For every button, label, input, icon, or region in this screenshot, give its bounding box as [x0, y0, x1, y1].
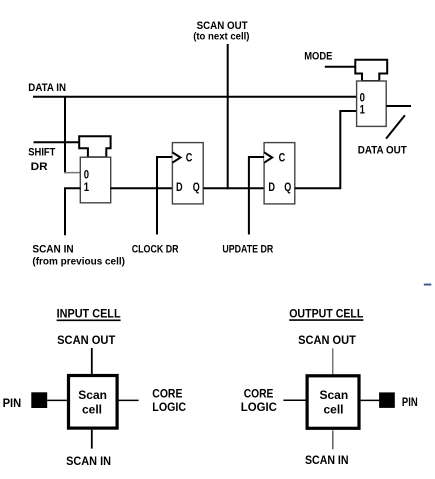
svg-text:SCAN OUT: SCAN OUT	[197, 20, 248, 32]
wire: mux U1 output to FF1 D	[110, 187, 172, 189]
wire: SCAN OUT vertical to Q1/D2 node	[227, 44, 229, 189]
wire: output cell scan out lead	[332, 348, 334, 374]
svg-text:PIN: PIN	[3, 396, 22, 410]
wire: scan cell to pin (output cell)	[361, 399, 380, 401]
label OUTPUT CELL (underlined)	[289, 306, 363, 320]
label CORE LOGIC (input cell)	[152, 387, 186, 415]
label Scan cell (input cell)	[78, 388, 107, 417]
svg-text:LOGIC: LOGIC	[152, 400, 186, 414]
label CORE LOGIC (output cell)	[241, 387, 277, 414]
svg-text:SCAN OUT: SCAN OUT	[298, 333, 356, 347]
svg-text:Q: Q	[193, 180, 200, 194]
wire: scan cell to core logic (input cell)	[118, 399, 138, 401]
label SCAN OUT (to next cell)	[193, 20, 249, 43]
hyperlink underscore artifact	[424, 284, 432, 286]
svg-text:D: D	[176, 180, 183, 194]
svg-text:PIN: PIN	[402, 395, 418, 409]
svg-text:CORE: CORE	[152, 387, 182, 401]
svg-text:SHIFT: SHIFT	[28, 146, 55, 158]
svg-text:Scan: Scan	[320, 388, 349, 402]
svg-text:DATA IN: DATA IN	[28, 82, 66, 94]
flip-flop FF2 body	[264, 143, 295, 204]
label SCAN IN (from previous cell)	[32, 243, 125, 267]
slash: data out bus mark	[386, 115, 405, 138]
svg-text:SCAN IN: SCAN IN	[66, 454, 111, 468]
pin pad square (input cell)	[31, 392, 47, 408]
flip-flop FF1 clock triangle	[172, 152, 180, 162]
wire: input cell scan in lead	[91, 430, 93, 449]
mux U2 body	[357, 81, 387, 126]
wire: FF2 Q up to mux U2 input 1	[295, 111, 356, 188]
wire: SHIFT DR to mux U1 hat	[34, 141, 81, 143]
svg-text:MODE: MODE	[304, 50, 332, 62]
wire: mux U2 output (DATA OUT)	[386, 105, 411, 107]
pin pad square (output cell)	[379, 392, 395, 408]
mux U2 select hat	[355, 60, 387, 81]
svg-text:CORE: CORE	[244, 387, 274, 401]
svg-text:C: C	[279, 151, 286, 165]
svg-text:DATA OUT: DATA OUT	[358, 144, 407, 156]
svg-text:(from previous cell): (from previous cell)	[32, 257, 125, 268]
svg-text:SCAN IN: SCAN IN	[305, 453, 349, 467]
label Scan cell (output cell)	[320, 388, 349, 417]
svg-text:Q: Q	[284, 180, 291, 194]
svg-text:INPUT CELL: INPUT CELL	[57, 307, 121, 321]
label SHIFT DR	[28, 146, 55, 173]
flip-flop FF2 clock triangle	[264, 152, 272, 162]
label INPUT CELL (underlined)	[57, 307, 121, 321]
svg-text:UPDATE DR: UPDATE DR	[222, 243, 273, 255]
svg-text:DR: DR	[31, 161, 48, 173]
svg-text:(to next cell): (to next cell)	[193, 32, 249, 43]
wire: SCAN IN riser to mux U1 input 1	[65, 188, 80, 235]
svg-text:D: D	[268, 180, 275, 194]
mux U1 body	[80, 157, 110, 203]
wire: output cell scan in lead	[332, 430, 334, 449]
svg-text:OUTPUT CELL: OUTPUT CELL	[289, 306, 363, 320]
wire: core logic to scan cell (output cell)	[283, 399, 305, 401]
mux U1 select hat	[79, 136, 110, 157]
wire: input cell scan out lead	[91, 348, 93, 374]
svg-text:CLOCK DR: CLOCK DR	[132, 243, 179, 255]
scan cell box (output cell)	[307, 376, 359, 429]
svg-text:C: C	[186, 151, 193, 165]
svg-text:1: 1	[84, 180, 90, 194]
wire: UPDATE DR to FF2 clock	[249, 157, 264, 235]
wire: FF1 Q to FF2 D	[203, 187, 264, 189]
svg-text:SCAN OUT: SCAN OUT	[57, 333, 116, 347]
svg-text:LOGIC: LOGIC	[241, 400, 277, 414]
wire: DATA IN bus to mux U2 input 0	[33, 96, 356, 98]
flip-flop FF1 body	[172, 143, 203, 204]
wire: MODE select to mux U2 hat	[325, 66, 356, 68]
svg-text:cell: cell	[82, 403, 102, 417]
svg-text:cell: cell	[324, 403, 344, 417]
svg-text:SCAN IN: SCAN IN	[32, 243, 73, 255]
svg-text:Scan: Scan	[78, 388, 107, 402]
svg-text:1: 1	[360, 103, 366, 117]
wire: pin to scan cell (input cell)	[47, 399, 67, 401]
wire: DATA IN drop to mux U1 input 0	[64, 97, 66, 174]
scan cell box (input cell)	[69, 376, 118, 429]
wire: CLOCK DR to FF1 clock	[157, 157, 172, 235]
